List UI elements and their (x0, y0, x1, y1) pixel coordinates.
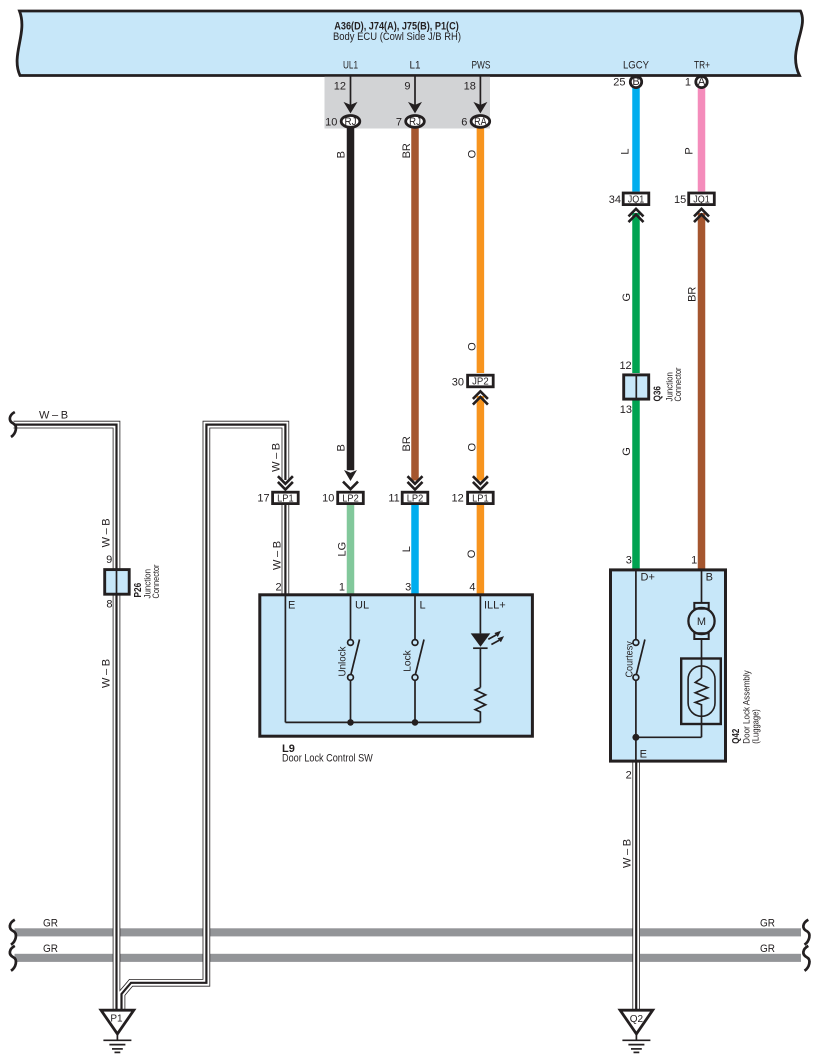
svg-text:18: 18 (464, 81, 476, 93)
svg-text:PWS: PWS (472, 59, 491, 71)
svg-text:O: O (467, 149, 479, 158)
svg-text:12: 12 (452, 493, 464, 505)
svg-text:3: 3 (626, 555, 632, 567)
svg-text:Door Lock Control SW: Door Lock Control SW (282, 753, 373, 765)
svg-text:Connector: Connector (673, 368, 684, 402)
svg-text:13: 13 (620, 404, 632, 416)
svg-text:W–B: W–B (272, 538, 284, 570)
svg-text:B: B (706, 572, 713, 584)
svg-text:15: 15 (674, 194, 686, 206)
svg-text:P1: P1 (110, 1013, 123, 1024)
svg-text:JQ1: JQ1 (693, 194, 710, 205)
svg-text:LP2: LP2 (407, 494, 424, 505)
svg-text:JP2: JP2 (472, 377, 489, 388)
svg-text:B: B (336, 444, 348, 451)
svg-text:RA: RA (474, 116, 487, 128)
svg-text:W–B: W–B (622, 836, 634, 868)
svg-text:30: 30 (452, 376, 464, 388)
svg-text:Courtesy: Courtesy (625, 641, 636, 677)
svg-text:1: 1 (691, 555, 697, 567)
svg-text:TR+: TR+ (694, 59, 710, 71)
svg-text:2: 2 (626, 770, 632, 782)
svg-text:LP2: LP2 (342, 494, 359, 505)
svg-text:10: 10 (325, 116, 337, 128)
svg-text:Q42: Q42 (731, 728, 742, 743)
svg-text:3: 3 (405, 582, 411, 594)
svg-text:12: 12 (619, 360, 631, 372)
svg-text:Q36: Q36 (652, 386, 663, 402)
svg-text:E: E (288, 600, 295, 612)
svg-text:34: 34 (609, 194, 621, 206)
svg-text:B: B (632, 76, 639, 88)
svg-text:Body ECU (Cowl Side J/B RH): Body ECU (Cowl Side J/B RH) (333, 31, 461, 43)
svg-text:4: 4 (469, 582, 475, 594)
svg-text:UL: UL (355, 600, 369, 612)
svg-text:9: 9 (404, 81, 410, 93)
svg-text:LP1: LP1 (472, 494, 489, 505)
svg-text:O: O (466, 549, 478, 558)
svg-text:G: G (621, 447, 633, 456)
svg-text:6: 6 (461, 116, 467, 128)
svg-text:8: 8 (106, 599, 112, 611)
svg-text:GR: GR (43, 943, 58, 955)
svg-text:E: E (640, 748, 647, 760)
svg-text:JQ1: JQ1 (628, 194, 645, 205)
svg-text:1: 1 (685, 76, 691, 88)
svg-text:12: 12 (334, 81, 346, 93)
svg-text:D+: D+ (641, 572, 655, 584)
svg-text:P: P (684, 147, 696, 154)
svg-text:Unlock: Unlock (338, 646, 349, 677)
svg-text:25: 25 (613, 76, 625, 88)
svg-text:A: A (698, 76, 706, 88)
svg-text:7: 7 (396, 116, 402, 128)
svg-text:W–B: W–B (270, 440, 282, 472)
svg-text:L1: L1 (410, 59, 421, 71)
svg-text:Lock: Lock (403, 649, 414, 672)
svg-text:GR: GR (43, 917, 58, 929)
svg-text:ILL+: ILL+ (484, 600, 506, 612)
svg-text:LP1: LP1 (277, 494, 294, 505)
svg-text:2: 2 (275, 582, 281, 594)
svg-text:M: M (697, 616, 706, 628)
svg-text:BR: BR (401, 436, 413, 451)
svg-text:9: 9 (106, 554, 112, 566)
svg-text:G: G (621, 293, 633, 302)
svg-text:UL1: UL1 (343, 59, 358, 71)
svg-text:(Luggage): (Luggage) (751, 709, 762, 744)
svg-text:W–B: W–B (101, 656, 113, 688)
svg-text:RJ: RJ (345, 116, 357, 128)
svg-text:L: L (420, 600, 426, 612)
svg-text:11: 11 (388, 493, 399, 505)
svg-text:L: L (619, 148, 631, 154)
svg-text:BR: BR (687, 287, 699, 302)
svg-text:RJ: RJ (409, 116, 421, 128)
svg-text:LG: LG (337, 542, 349, 557)
svg-text:Connector: Connector (151, 565, 162, 599)
svg-text:W–B: W–B (39, 410, 71, 422)
svg-text:O: O (467, 342, 479, 351)
svg-text:GR: GR (760, 917, 775, 929)
svg-text:W–B: W–B (101, 516, 113, 548)
svg-text:LGCY: LGCY (623, 59, 650, 71)
svg-text:10: 10 (322, 493, 334, 505)
svg-text:17: 17 (257, 493, 269, 505)
svg-text:B: B (336, 151, 348, 158)
svg-text:GR: GR (760, 943, 775, 955)
svg-text:1: 1 (339, 582, 345, 594)
svg-text:L: L (401, 546, 413, 552)
svg-text:O: O (467, 443, 479, 452)
svg-text:Q2: Q2 (630, 1014, 644, 1025)
svg-text:BR: BR (401, 143, 413, 158)
